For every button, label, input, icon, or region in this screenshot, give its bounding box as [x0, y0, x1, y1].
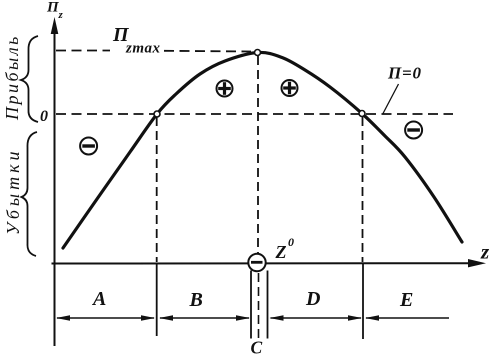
dashed level P=0: [56, 113, 453, 115]
vertical axis Pz: [51, 17, 59, 346]
channel right wall: [267, 271, 269, 339]
svg-text:zmax: zmax: [125, 41, 161, 57]
svg-text:B: B: [189, 289, 203, 311]
marker circle at Z0: [248, 254, 265, 271]
brace for profit: [21, 36, 38, 122]
arrow span E: [365, 315, 449, 321]
svg-text:0: 0: [40, 108, 48, 125]
dashed vertical at right crossing: [362, 117, 364, 262]
axis label Pz: [46, 0, 64, 21]
dashed vertical at left crossing: [156, 117, 158, 262]
plus sign left: [217, 81, 233, 97]
region boundary A|B: [156, 263, 158, 336]
svg-text:D: D: [305, 288, 320, 310]
channel left wall: [250, 271, 252, 339]
svg-text:Прибыль: Прибыль: [2, 34, 22, 121]
svg-text:Z: Z: [275, 242, 287, 262]
label Z0: [275, 235, 295, 262]
label Pzmax: [112, 24, 161, 57]
minus sign right: [405, 122, 422, 139]
dashed level Pzmax: [56, 50, 110, 52]
minus sign left: [80, 138, 97, 155]
node at peak: [255, 50, 261, 56]
svg-text:z: z: [480, 240, 490, 264]
svg-text:П=0: П=0: [387, 64, 422, 83]
svg-text:C: C: [251, 338, 263, 355]
channel center dashed: [258, 273, 260, 341]
svg-text:A: A: [91, 288, 106, 310]
svg-text:Убытки: Убытки: [3, 147, 23, 235]
arrow span D: [270, 315, 363, 321]
dashed vertical at peak: [257, 56, 259, 253]
svg-text:E: E: [399, 289, 413, 311]
region boundary D|E: [362, 263, 364, 339]
horizontal axis z: [52, 259, 487, 267]
brace for losses: [22, 132, 38, 256]
node at left zero crossing: [154, 111, 160, 117]
arrow span A: [56, 315, 155, 321]
arrow span B: [159, 315, 250, 321]
profit curve: [63, 52, 462, 248]
callout line for P=0: [383, 84, 399, 114]
svg-text:z: z: [58, 9, 64, 21]
svg-text:0: 0: [288, 235, 294, 249]
plus sign right: [282, 80, 298, 96]
node at right zero crossing: [359, 111, 365, 117]
